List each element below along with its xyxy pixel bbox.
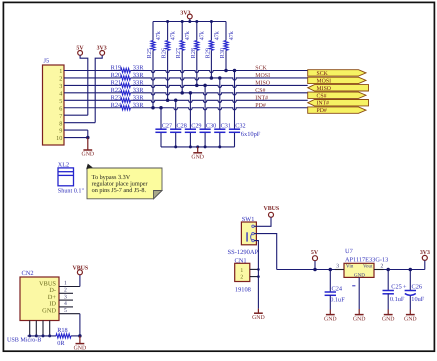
- svg-text:7: 7: [59, 113, 62, 120]
- svg-text:PD#: PD#: [255, 103, 266, 109]
- svg-text:33R: 33R: [133, 65, 144, 72]
- svg-text:1: 1: [59, 68, 62, 75]
- svg-text:5: 5: [64, 308, 67, 314]
- svg-text:47k: 47k: [170, 30, 177, 40]
- svg-text:R23: R23: [111, 94, 122, 101]
- svg-text:GND: GND: [353, 316, 366, 322]
- svg-text:6x10pF: 6x10pF: [241, 131, 261, 138]
- svg-text:INT#: INT#: [317, 101, 330, 107]
- svg-text:Vout: Vout: [363, 264, 373, 270]
- svg-text:SCK: SCK: [255, 66, 267, 72]
- svg-text:6: 6: [59, 105, 62, 112]
- svg-text:8: 8: [59, 120, 62, 127]
- svg-text:XL2: XL2: [58, 161, 69, 168]
- svg-text:4: 4: [64, 301, 67, 307]
- svg-text:J5: J5: [44, 58, 50, 65]
- svg-text:0R: 0R: [57, 340, 65, 347]
- svg-text:33R: 33R: [133, 102, 144, 109]
- svg-text:R18: R18: [57, 327, 67, 334]
- svg-text:1: 1: [64, 281, 67, 287]
- svg-text:GND: GND: [252, 315, 265, 321]
- svg-text:47k: 47k: [155, 30, 162, 40]
- svg-text:GND: GND: [191, 155, 204, 161]
- svg-text:GND: GND: [404, 316, 417, 322]
- svg-text:R28: R28: [190, 48, 197, 58]
- svg-text:on pins J5-7 and J5-8.: on pins J5-7 and J5-8.: [92, 187, 147, 194]
- svg-text:4: 4: [59, 90, 62, 97]
- svg-text:C32: C32: [235, 123, 245, 130]
- svg-text:47k: 47k: [199, 30, 206, 40]
- svg-text:R24: R24: [111, 102, 122, 109]
- svg-text:47k: 47k: [228, 30, 235, 40]
- svg-text:3: 3: [59, 83, 62, 90]
- svg-text:47k: 47k: [184, 30, 191, 40]
- svg-text:MISO: MISO: [317, 86, 332, 92]
- svg-text:5: 5: [59, 98, 62, 105]
- svg-text:33R: 33R: [133, 72, 144, 79]
- svg-text:1: 1: [240, 268, 243, 274]
- svg-text:R29: R29: [204, 48, 211, 58]
- svg-text:2: 2: [64, 288, 67, 294]
- svg-text:VBUS: VBUS: [263, 206, 279, 212]
- svg-text:C25: C25: [391, 283, 402, 290]
- svg-text:10: 10: [56, 135, 62, 142]
- svg-text:GND: GND: [382, 316, 395, 322]
- svg-text:SS-1290AP: SS-1290AP: [228, 249, 259, 256]
- svg-text:R20: R20: [111, 72, 122, 79]
- svg-text:MOSI: MOSI: [317, 78, 332, 84]
- svg-text:R21: R21: [111, 80, 122, 87]
- svg-text:R30: R30: [219, 48, 226, 58]
- svg-text:10uF: 10uF: [411, 296, 424, 303]
- svg-text:R22: R22: [111, 87, 122, 94]
- svg-text:CS#: CS#: [255, 88, 265, 94]
- svg-text:Shunt 0.1": Shunt 0.1": [58, 188, 85, 195]
- svg-text:GND: GND: [82, 152, 95, 158]
- svg-text:U7: U7: [345, 248, 354, 255]
- svg-text:GND: GND: [324, 316, 337, 322]
- svg-text:0.1uF: 0.1uF: [330, 296, 345, 303]
- svg-text:33R: 33R: [133, 94, 144, 101]
- svg-text:19108: 19108: [235, 287, 251, 294]
- svg-text:CN1: CN1: [235, 257, 247, 264]
- svg-text:PD#: PD#: [317, 108, 327, 114]
- svg-text:R27: R27: [175, 48, 182, 58]
- svg-text:3: 3: [64, 294, 67, 300]
- svg-text:33R: 33R: [133, 80, 144, 87]
- svg-text:SCK: SCK: [317, 71, 329, 77]
- svg-text:9: 9: [59, 128, 62, 135]
- svg-text:R19: R19: [111, 65, 122, 72]
- svg-text:SW1: SW1: [242, 216, 255, 223]
- svg-text:C24: C24: [332, 286, 343, 293]
- svg-text:GND: GND: [42, 308, 56, 315]
- svg-text:C26: C26: [412, 283, 423, 290]
- svg-text:MOSI: MOSI: [255, 73, 270, 79]
- svg-text:INT#: INT#: [255, 95, 268, 101]
- svg-text:CN2: CN2: [22, 270, 34, 277]
- svg-text:Vin: Vin: [346, 264, 354, 270]
- svg-text:2: 2: [240, 275, 243, 281]
- svg-text:0.1uF: 0.1uF: [390, 296, 405, 303]
- svg-text:R25: R25: [146, 48, 153, 58]
- svg-text:CS#: CS#: [317, 93, 327, 99]
- svg-text:2: 2: [381, 263, 384, 269]
- svg-text:5V: 5V: [311, 250, 319, 256]
- svg-text:33R: 33R: [133, 87, 144, 94]
- svg-text:GND: GND: [74, 345, 87, 351]
- svg-text:USB Micro-B: USB Micro-B: [7, 336, 41, 343]
- svg-text:3: 3: [336, 263, 339, 269]
- svg-text:R26: R26: [161, 48, 168, 58]
- svg-text:47k: 47k: [213, 30, 220, 40]
- svg-text:2: 2: [59, 76, 62, 83]
- svg-text:+: +: [403, 284, 407, 291]
- svg-text:MISO: MISO: [255, 80, 270, 86]
